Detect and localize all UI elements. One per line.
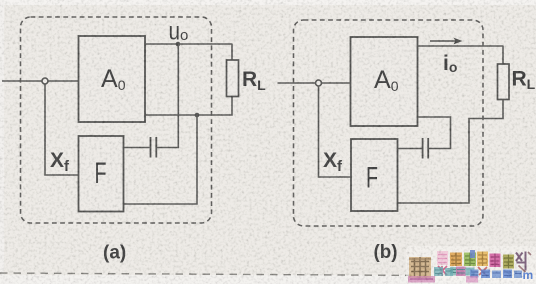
pink glyph (437, 251, 448, 276)
label X_f (a) (50, 149, 70, 175)
label (b) caption (374, 241, 398, 263)
wire: feedback input X_f wire (b) (319, 86, 352, 177)
label X_f (b) (323, 149, 343, 175)
label (a) caption (103, 243, 126, 264)
wire: capacitor left lead from F (a) (124, 147, 150, 149)
label F (a) (95, 157, 107, 190)
label i_o output current (b) (443, 52, 457, 75)
wire: voltage sense vertical from u_o to capacitor (a) (177, 44, 179, 148)
watermark: colorful site logo bottom-right (330, 246, 536, 283)
arrow: output current direction (b) (430, 38, 463, 45)
label R_L (b) (512, 68, 536, 93)
scattered bottom magenta accents (330, 276, 478, 283)
node: input summing node (a) (42, 78, 48, 84)
capacitor C coupling (b) (423, 138, 429, 159)
wire: output top wire to load (a) (145, 43, 233, 45)
dark purple glyph (516, 252, 531, 273)
capacitor C coupling (a) (151, 137, 157, 158)
blue small piece (470, 250, 475, 258)
wire: input lead (b) (278, 82, 352, 84)
wire: input lead (a) (2, 80, 79, 82)
wire: R_L top lead (a) (231, 44, 233, 60)
yellow-orange glyph (477, 252, 488, 276)
label R_L (a) (242, 68, 266, 93)
green glyph (464, 253, 476, 276)
wire: R_L bottom return to F (b) (398, 100, 504, 204)
wire: bottom return from A0 to R_L (a) (145, 97, 232, 116)
label A0 (a) (101, 65, 126, 93)
big tan glyph (408, 257, 435, 283)
wire: feedback tap down to F input (a) (124, 115, 198, 204)
label F (b) (366, 162, 378, 195)
wire: capacitor left lead from F (b) (398, 148, 422, 150)
block A0 basic amplifier (a) (79, 36, 146, 122)
enclosure: dashed amplifier boundary (b) (294, 20, 484, 226)
block F feedback network (a) (79, 136, 124, 212)
wire: capacitor right lead to sense line (a) (157, 147, 179, 149)
label u_o output voltage (a) (169, 18, 189, 46)
teal and magenta mid pieces (434, 267, 466, 277)
node: u_o sense junction (a) (176, 42, 181, 47)
node: input summing node (b) (316, 80, 322, 86)
enclosure: dashed amplifier boundary (a) (21, 17, 212, 223)
page rule: long dashed separator at bottom (0, 273, 430, 276)
block A0 basic amplifier (b) (351, 37, 418, 126)
wire: A0 bottom output to capacitor (b) (418, 117, 451, 149)
node: feedback tap junction (a) (195, 113, 200, 118)
white halo behind logo (406, 246, 536, 282)
blue bottom text band (470, 268, 533, 282)
block F feedback network (b) (351, 139, 398, 211)
orange glyph (450, 253, 464, 276)
wire: R_L top lead (b) (502, 46, 504, 64)
resistor R_L load (b) (498, 64, 510, 100)
label A0 (b) (374, 66, 399, 94)
magenta glyph (490, 254, 501, 268)
olive glyph (503, 255, 514, 277)
wire: output top wire to load (b) (418, 45, 504, 47)
wire: feedback input X_f wire (a) (45, 84, 79, 175)
resistor R_L load (a) (227, 60, 239, 97)
